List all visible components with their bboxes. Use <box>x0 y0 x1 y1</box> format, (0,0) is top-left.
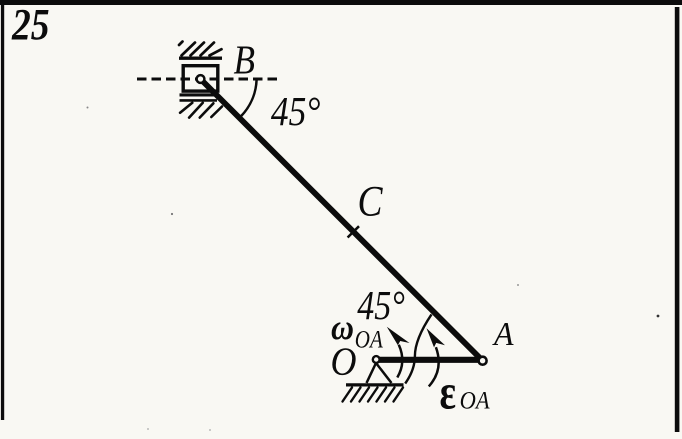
ground hatching under O <box>343 388 404 402</box>
slider guide top hatching <box>179 42 222 56</box>
slider guide top line <box>179 57 222 60</box>
svg-text:25: 25 <box>11 0 49 49</box>
svg-text:45°: 45° <box>271 88 321 134</box>
scan speck <box>147 428 149 430</box>
epsilon_OA arrowhead <box>427 328 446 347</box>
scan speck <box>517 284 519 286</box>
slider block B <box>183 66 218 91</box>
slider guide bottom hatching <box>180 103 222 118</box>
ground line under O <box>346 383 404 386</box>
slider guide bottom line 2 <box>180 99 218 102</box>
rod BA <box>201 79 483 361</box>
omega_OA arrowhead <box>387 327 410 346</box>
crank link OA <box>375 357 483 363</box>
pin joint A <box>479 357 487 365</box>
svg-text:ε: ε <box>440 363 457 419</box>
45-degree arc at B <box>241 80 256 116</box>
slider guide bottom line 1 <box>180 93 217 96</box>
scan speck <box>87 107 89 109</box>
epsilon_OA arrow shaft <box>429 347 439 386</box>
svg-text:OA: OA <box>355 326 384 353</box>
scan speck <box>209 429 211 431</box>
pin joint O <box>373 356 380 363</box>
svg-text:A: A <box>492 316 514 353</box>
svg-text:C: C <box>358 179 384 226</box>
svg-text:B: B <box>234 37 256 83</box>
pin joint B <box>197 75 205 83</box>
scan speck <box>171 213 173 215</box>
45-degree arc at A <box>405 314 431 383</box>
svg-text:OA: OA <box>460 385 490 414</box>
pivot support triangle at O <box>367 363 392 383</box>
svg-text:45°: 45° <box>357 282 405 328</box>
guide dashed line through B <box>137 78 281 81</box>
omega_OA arrow shaft <box>397 345 402 378</box>
point C tick on rod <box>348 226 359 237</box>
svg-text:ω: ω <box>331 307 354 347</box>
scan speck <box>657 315 660 318</box>
